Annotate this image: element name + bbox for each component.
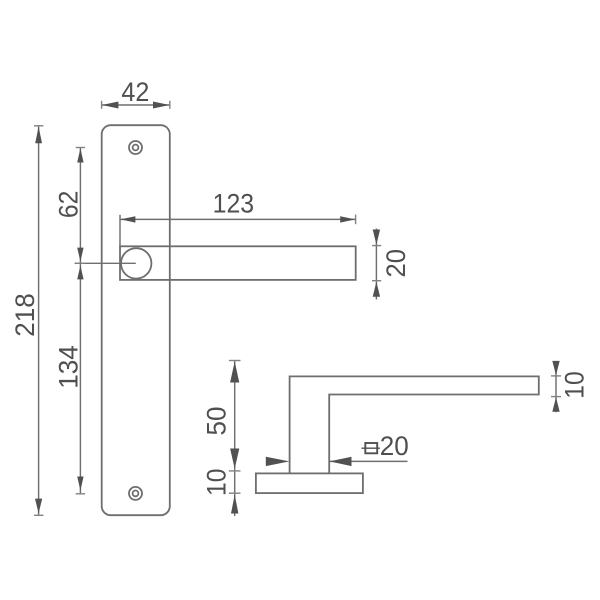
- dim 50 bottom tick: [229, 470, 241, 472]
- svg-text:20: 20: [381, 249, 411, 278]
- dim 50 line: [234, 361, 236, 517]
- square symbol: [365, 443, 377, 453]
- svg-text:134: 134: [54, 345, 84, 389]
- dim 218 bottom tick: [34, 514, 43, 516]
- dim 20 top arrow: [373, 230, 380, 245]
- lever bar front view: [120, 246, 356, 280]
- dim 42 line: [102, 104, 170, 106]
- svg-text:123: 123: [213, 188, 255, 218]
- dim 50 top arrow: [230, 362, 239, 383]
- dim 10 right top tick: [551, 375, 561, 377]
- svg-text:50: 50: [202, 407, 232, 436]
- top screw: [129, 141, 142, 154]
- dim 62 bottom arrow: [77, 248, 83, 262]
- svg-text:10: 10: [202, 468, 232, 496]
- svg-text:42: 42: [121, 77, 149, 107]
- dim 134 top arrow: [77, 265, 83, 279]
- dim 10 right top arrow: [552, 361, 559, 375]
- dim 42 right tick: [169, 101, 171, 109]
- dim 20 lever height line: [375, 229, 377, 300]
- side view lever bar: [290, 376, 539, 473]
- dim 50 bottom arrow: [230, 449, 239, 469]
- dim 218 top tick: [34, 125, 43, 127]
- svg-text:10: 10: [560, 371, 590, 399]
- dim 10 right bottom arrow: [552, 397, 559, 411]
- svg-text:20: 20: [380, 431, 409, 461]
- backplate outline: [102, 125, 170, 515]
- dim 42 left tick: [101, 101, 103, 109]
- dim 42 left arrow: [102, 102, 119, 109]
- dim 123 right tick: [355, 215, 357, 225]
- dim 218 line: [38, 126, 40, 516]
- dim square-20 left arrow on neck right edge: [330, 457, 352, 466]
- dim 10 base tick: [229, 492, 241, 494]
- dim 42 right arrow: [153, 102, 170, 109]
- lever hub circle: [121, 248, 151, 278]
- dim 62 top tick: [76, 147, 85, 149]
- dim 123 right arrow: [340, 216, 355, 222]
- svg-text:62: 62: [54, 191, 84, 219]
- dim 10 bottom arrow: [231, 495, 238, 514]
- dim 134 line: [79, 263, 81, 494]
- square symbol midline: [362, 447, 380, 449]
- side view rose base: [256, 473, 363, 493]
- dim 62 bottom tick (shared with 134): [76, 262, 85, 264]
- dim 62 line: [79, 148, 81, 264]
- dim 218 bottom arrow: [35, 499, 42, 514]
- dim 20 bottom arrow: [373, 282, 380, 297]
- dim 123 left arrow: [120, 216, 135, 222]
- dim 20 top tick: [372, 245, 381, 247]
- dim 10 right line: [555, 361, 557, 412]
- bottom screw: [129, 487, 142, 500]
- dim 50 top tick: [229, 360, 241, 362]
- dim square-20 leader line: [329, 460, 407, 462]
- dim 123 line: [120, 218, 356, 220]
- dim 62 top arrow: [77, 148, 83, 162]
- dim 10 right bottom tick: [551, 396, 561, 398]
- dim 20 bottom tick: [372, 280, 381, 282]
- centerline through hub: [75, 262, 136, 264]
- dim square-20 right-pointing arrow at neck left edge: [266, 457, 290, 466]
- dim 218 top arrow: [35, 127, 42, 144]
- dim 123 extension line at lever left: [119, 215, 121, 247]
- dim 134 bottom tick: [76, 493, 85, 495]
- dim 134 bottom arrow: [77, 477, 83, 491]
- svg-text:218: 218: [10, 293, 40, 337]
